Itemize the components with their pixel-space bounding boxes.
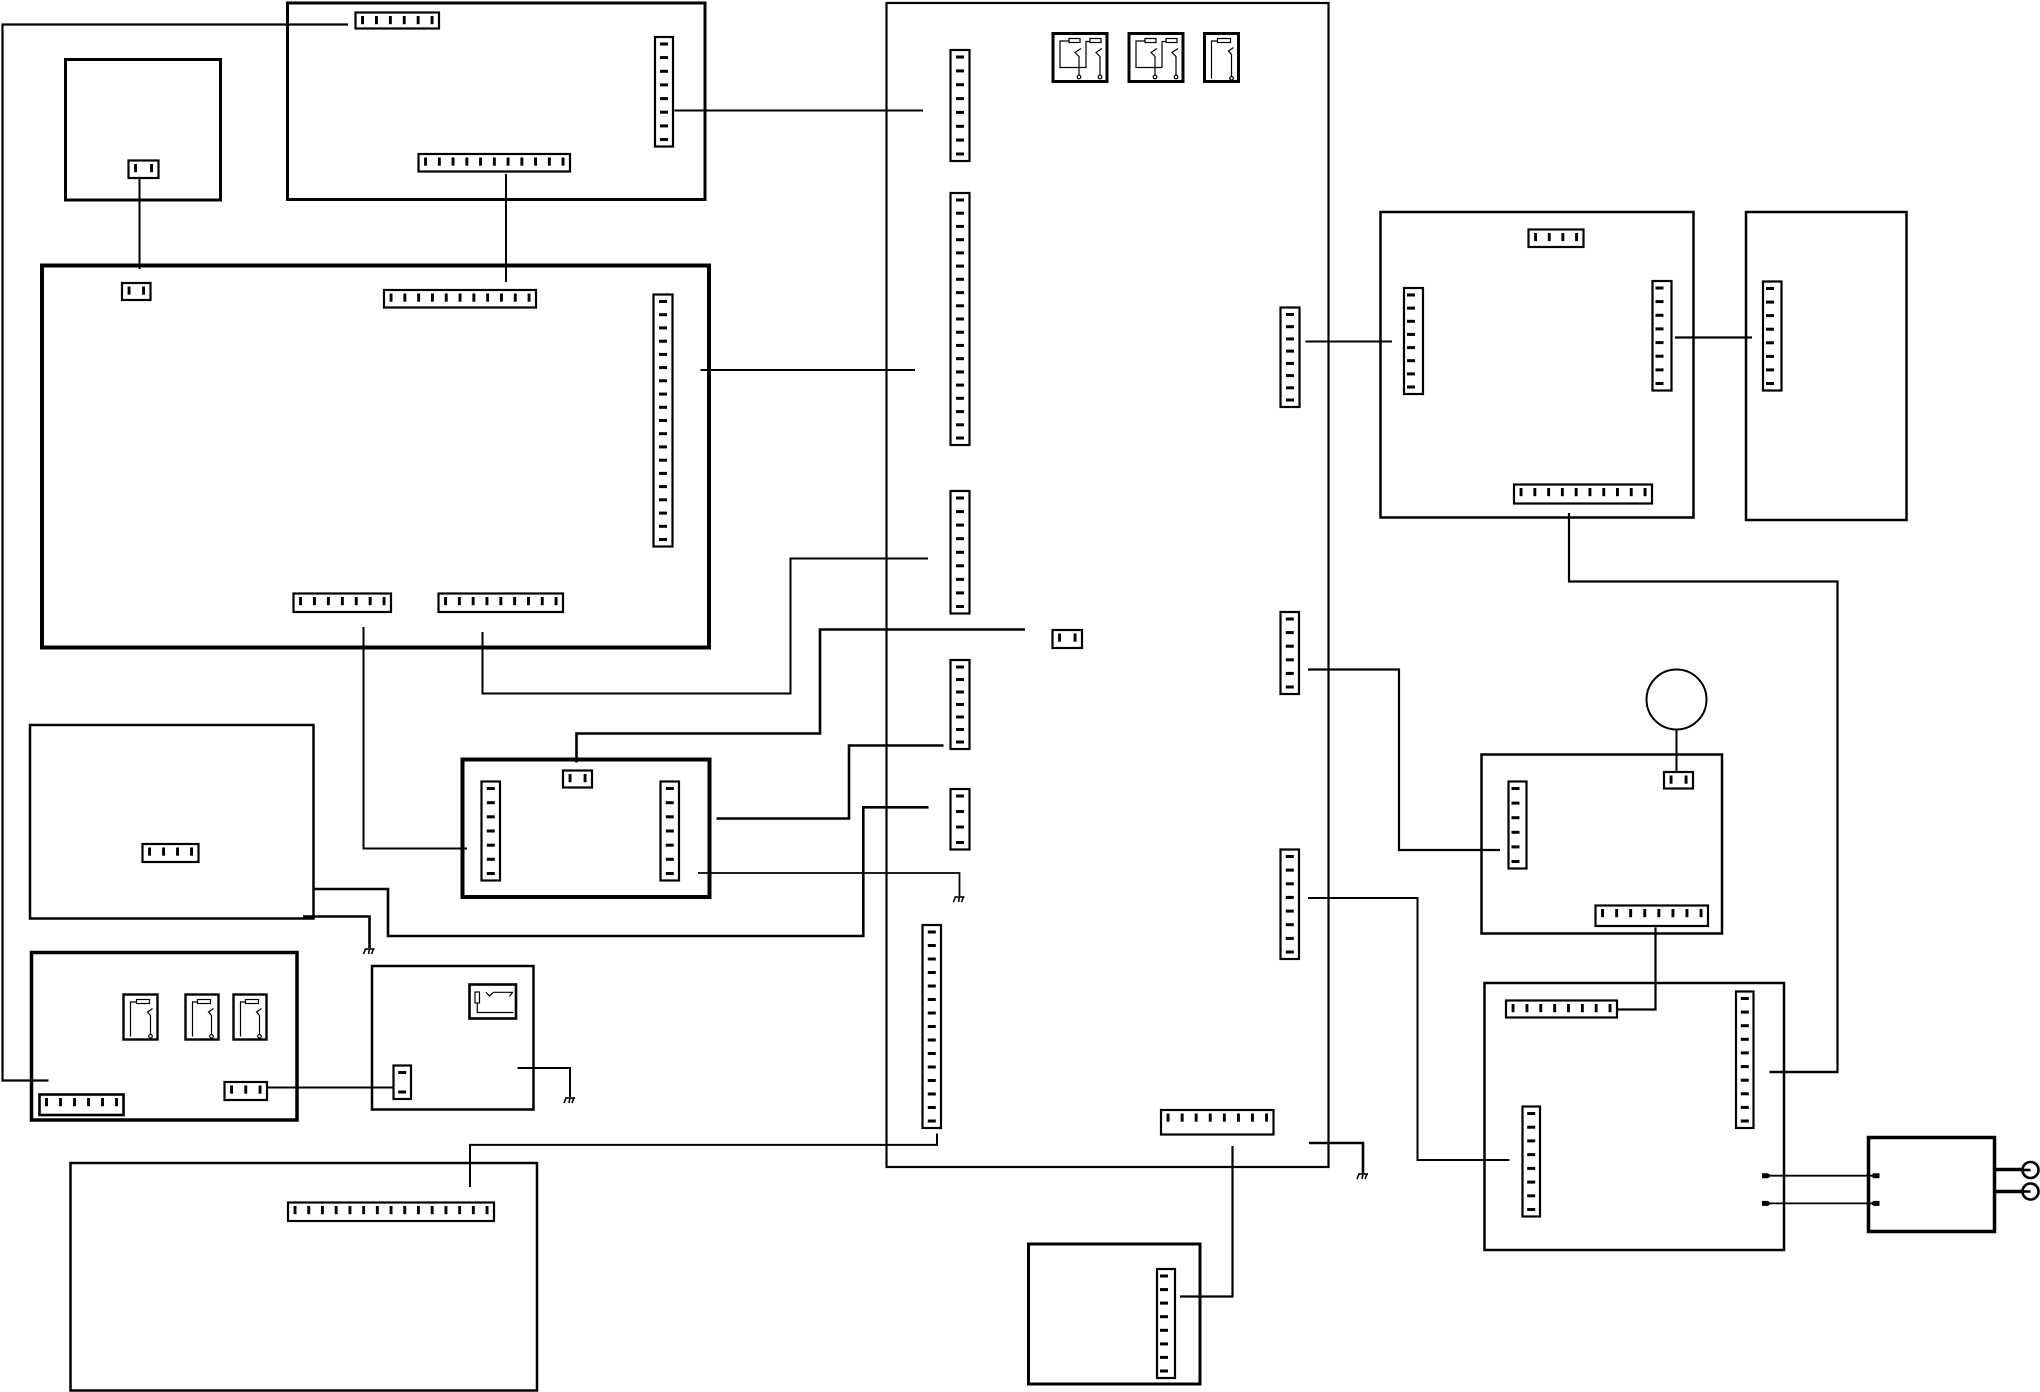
module box J (1746, 212, 1907, 520)
relay box E (32, 953, 298, 1121)
connector H6 15-pin (923, 925, 942, 1128)
module box M (1869, 1138, 1995, 1232)
connector E1-left 7-pin (482, 782, 501, 881)
wire A1 to C1 (139, 179, 141, 270)
wire I-right to box J (1675, 336, 1752, 338)
connector K-top 2-pin (1664, 772, 1693, 789)
module box G (71, 1163, 538, 1391)
relay icon H-1 (1053, 34, 1107, 82)
connector H8 2-pin (1053, 630, 1083, 648)
wire H bottom to ground (1309, 1143, 1363, 1173)
wire D bottom to ground (303, 917, 370, 949)
connector K-left 6-pin (1509, 782, 1527, 869)
wire H7 to N1 (1180, 1146, 1233, 1297)
wire H-R2 to K-left (1308, 670, 1500, 851)
wire G1 to H6 (470, 1134, 937, 1188)
harness box H (887, 3, 1329, 1167)
connector H-R3 8-pin (1281, 850, 1300, 960)
connector I-top 4-pin (1529, 230, 1584, 248)
pin stub M wire1 right (1871, 1173, 1880, 1178)
wire E to battery box F (267, 1087, 393, 1089)
wire H-R3 to L3 (1308, 898, 1510, 1160)
wire D to H5 (314, 807, 929, 936)
pin stub M wire2 right (1871, 1201, 1880, 1206)
connector E-right 3-pin (225, 1082, 268, 1100)
connector C-top 11-pin (384, 290, 536, 308)
wire L to M pin 1 (1762, 1175, 1879, 1177)
wire B-bottom to C-top (505, 174, 507, 282)
connector I-left 8-pin (1404, 288, 1423, 394)
connector H4 7-pin (951, 660, 970, 749)
pin stub L wire2 left (1762, 1201, 1771, 1206)
relay icon E-2 (186, 995, 219, 1040)
relay icon E-1 (124, 995, 158, 1040)
ground symbol below box H right (1357, 1174, 1368, 1179)
connector E1-top 2-pin (563, 771, 592, 788)
connector C1 2-pin (122, 283, 151, 300)
connector H3 9-pin (951, 491, 970, 614)
relay icon H-3 (1205, 34, 1239, 82)
connector H1 8-pin (951, 50, 970, 161)
connector H7 8-pin (1161, 1110, 1274, 1135)
wire B-right to H1 (675, 110, 924, 112)
wire K-bottom to L1 (1617, 928, 1656, 1010)
connector C-right 19-pin (654, 295, 673, 547)
connector L1 8-pin (1506, 1001, 1617, 1018)
connector H-R2 6-pin (1281, 612, 1300, 694)
pin stub L wire1 left (1762, 1173, 1771, 1178)
connector E1-right 7-pin (661, 782, 680, 881)
wire E1 to ground (698, 873, 960, 896)
relay icon H-2 (1129, 34, 1183, 82)
wire E1-top to H8 (577, 630, 1026, 763)
wire C-right to box H (701, 369, 916, 371)
battery box F (372, 966, 534, 1110)
wire C-bottom-right to H3 (483, 559, 929, 694)
connector F1 2-pin (394, 1066, 412, 1100)
module box E1 (463, 760, 710, 898)
terminal circle T2 (2023, 1184, 2039, 1200)
connector I-right 8-pin (1653, 281, 1672, 391)
connector N1 8-pin (1157, 1269, 1175, 1378)
wire M output 1 (1995, 1168, 2023, 1171)
connector L2 10-pin (1736, 992, 1754, 1129)
battery icon in box F (470, 985, 517, 1019)
connector G1 15-pin (288, 1203, 494, 1222)
module box C (42, 266, 709, 648)
module box K (1482, 755, 1723, 934)
wire E1-right to H4 (717, 746, 944, 819)
wire sensor to K-top (1676, 730, 1678, 772)
connector A1 2-pin (129, 161, 159, 179)
connector I-bottom 10-pin (1514, 485, 1652, 504)
connector H5 4-pin (951, 789, 970, 850)
wire L to M pin 2 (1762, 1202, 1879, 1204)
round sensor S1 (1647, 670, 1707, 730)
connector B-top 6-pin (356, 13, 440, 29)
connector H2 19-pin (951, 193, 970, 445)
wire H-R1 to box I (1306, 341, 1393, 343)
connector E-bottom-left 6-pin (40, 1095, 124, 1116)
ground symbol near box F (564, 1098, 575, 1103)
ground symbol right of box E1 (954, 897, 965, 902)
connector J1 8-pin (1763, 282, 1782, 391)
wire F to ground (518, 1068, 571, 1097)
module box N (1029, 1244, 1201, 1384)
wire I-bottom to L2 (1569, 513, 1838, 1072)
wire C-bottom-left to box E1 (364, 627, 468, 849)
module box A (66, 60, 221, 201)
connector D1 4-pin (143, 844, 199, 862)
connector L3 8-pin (1523, 1107, 1541, 1217)
relay icon E-3 (234, 995, 267, 1040)
ground symbol near box D (364, 949, 375, 954)
connector K-bottom 8-pin (1596, 906, 1709, 927)
wire L2 to box I riser (1770, 1071, 1838, 1073)
module box I (1381, 212, 1694, 518)
terminal circle T1 (2023, 1162, 2039, 1178)
connector H-R1 8-pin (1281, 308, 1300, 408)
connector B-right 8-pin (655, 37, 673, 147)
connector C-bottom-right 9-pin (439, 594, 564, 613)
module box B (288, 3, 706, 200)
wire left frame from box B top connector to relay box E (3, 25, 349, 1081)
connector C-bottom-left 7-pin (294, 594, 392, 613)
connector B-bottom 11-pin (419, 154, 571, 172)
module box L (1485, 983, 1785, 1250)
wire M output 2 (1995, 1190, 2023, 1193)
module box D (30, 725, 314, 919)
